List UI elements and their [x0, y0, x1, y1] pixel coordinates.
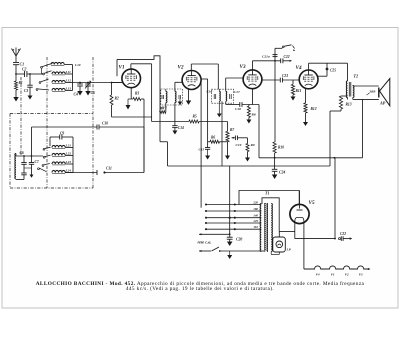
- svg-text:C21a: C21a: [262, 55, 270, 59]
- svg-text:L22: L22: [65, 151, 72, 155]
- svg-text:R2: R2: [115, 97, 119, 101]
- svg-text:R9: R9: [251, 143, 255, 147]
- svg-text:rete c.a.: rete c.a.: [198, 240, 212, 245]
- svg-text:C17: C17: [234, 90, 240, 94]
- svg-text:L10: L10: [74, 63, 81, 67]
- svg-text:V2: V2: [178, 65, 184, 71]
- svg-text:R3: R3: [135, 92, 139, 96]
- svg-text:C6: C6: [20, 151, 24, 155]
- svg-text:C14: C14: [178, 126, 184, 130]
- svg-text:140: 140: [253, 214, 258, 218]
- svg-text:V3: V3: [359, 273, 363, 277]
- svg-text:C22: C22: [284, 55, 290, 59]
- svg-text:C9: C9: [60, 131, 64, 135]
- svg-text:T2: T2: [354, 74, 358, 79]
- svg-text:L21: L21: [65, 143, 72, 147]
- svg-text:R1: R1: [19, 81, 23, 85]
- svg-text:C25: C25: [330, 69, 336, 73]
- svg-text:R12: R12: [311, 107, 317, 111]
- svg-text:T1: T1: [265, 191, 269, 196]
- svg-text:MF1: MF1: [159, 106, 167, 110]
- svg-text:160: 160: [253, 207, 258, 211]
- svg-text:+: +: [366, 93, 368, 97]
- svg-text:R10: R10: [278, 146, 284, 150]
- svg-text:V3: V3: [240, 64, 246, 70]
- svg-text:V5: V5: [309, 200, 315, 206]
- svg-text:C11: C11: [106, 167, 112, 171]
- svg-text:V4: V4: [316, 273, 320, 277]
- svg-text:C2: C2: [22, 68, 27, 72]
- svg-text:C1: C1: [20, 62, 25, 67]
- svg-text:R7: R7: [230, 128, 234, 132]
- svg-text:C16: C16: [207, 90, 213, 94]
- svg-text:125: 125: [253, 219, 258, 223]
- svg-text:L24: L24: [65, 168, 72, 172]
- svg-text:V1: V1: [119, 65, 125, 71]
- svg-text:C18: C18: [235, 107, 241, 111]
- svg-text:C22: C22: [340, 232, 346, 236]
- svg-text:R8: R8: [252, 113, 256, 117]
- svg-text:R13: R13: [346, 103, 352, 107]
- svg-text:C24: C24: [279, 171, 285, 175]
- svg-text:L23: L23: [65, 160, 72, 164]
- svg-text:445 kc/s. (Vedi a pag. 19 le t: 445 kc/s. (Vedi a pag. 19 le tabelle dei…: [126, 285, 274, 292]
- svg-text:L12: L12: [65, 78, 72, 82]
- svg-text:C4: C4: [74, 93, 79, 97]
- svg-text:C19: C19: [236, 143, 242, 147]
- svg-text:V2: V2: [345, 273, 349, 277]
- svg-text:R5: R5: [193, 115, 197, 119]
- svg-text:AP: AP: [379, 101, 386, 106]
- svg-text:V1: V1: [331, 273, 335, 277]
- svg-text:L13: L13: [65, 86, 72, 90]
- svg-text:C10: C10: [102, 122, 108, 126]
- svg-text:C23: C23: [282, 74, 288, 78]
- svg-text:R11: R11: [296, 89, 302, 93]
- svg-text:220: 220: [252, 201, 258, 205]
- svg-text:C7: C7: [35, 160, 39, 164]
- svg-text:C3: C3: [24, 89, 28, 93]
- svg-text:110: 110: [253, 225, 258, 229]
- svg-text:C5: C5: [91, 91, 96, 95]
- svg-text:C20: C20: [236, 238, 242, 242]
- svg-text:C15: C15: [199, 148, 205, 152]
- svg-text:R6: R6: [211, 136, 215, 140]
- svg-text:L11: L11: [65, 70, 72, 74]
- svg-text:V4: V4: [296, 65, 302, 71]
